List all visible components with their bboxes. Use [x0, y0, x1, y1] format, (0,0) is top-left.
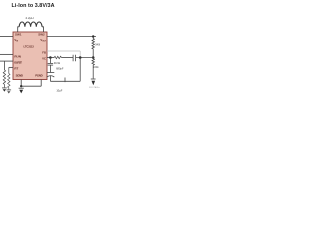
resistor R1 (top feedback): [92, 39, 94, 58]
node comp: [79, 56, 82, 59]
wire PGND drop: [40, 80, 42, 87]
svg-text:VC: VC: [42, 57, 46, 61]
ground (left col A): [2, 88, 7, 92]
wire SW2 stub up: [42, 27, 44, 32]
node VC: [49, 56, 52, 59]
wire stub (right of C4): [64, 78, 66, 83]
svg-text:49.9k: 49.9k: [54, 61, 61, 65]
wire RC to CC: [62, 57, 74, 59]
node junction SGND/PGND: [20, 85, 22, 87]
svg-text:FB: FB: [42, 50, 46, 54]
wire C3 lower lead: [49, 65, 51, 72]
wire RT branch down: [8, 67, 10, 73]
wire comp node down: [79, 58, 81, 82]
svg-text:LTC3113: LTC3113: [24, 45, 35, 49]
node FB divider mid: [92, 56, 95, 59]
wire VC cap branch down: [49, 58, 51, 64]
wire BURST: [0, 60, 13, 62]
svg-text:PGND: PGND: [35, 74, 42, 78]
svg-text:SW1: SW1: [15, 33, 22, 37]
svg-text:RT: RT: [14, 67, 18, 71]
wire SGND drop: [20, 80, 22, 87]
IC U1 LTC3113 body: [13, 32, 47, 80]
resistor R2 (bottom feedback): [92, 58, 94, 79]
wire RUN: [0, 53, 13, 55]
svg-text:680pF: 680pF: [56, 66, 64, 70]
svg-text:340k: 340k: [95, 42, 100, 46]
node VOUT/R1 tap: [92, 35, 94, 37]
wire SW1 stub up: [18, 27, 20, 32]
ground (under IC): [19, 88, 24, 93]
wire RT: [9, 66, 13, 68]
ground (left col B): [7, 90, 12, 94]
ground (feedback divider): [91, 79, 96, 85]
wire VC: [47, 57, 54, 59]
inductor L1 coil: [19, 22, 42, 27]
svg-text:BURST: BURST: [14, 61, 22, 65]
wire FB (faint): [47, 50, 80, 52]
svg-text:100k: 100k: [93, 65, 99, 69]
svg-text:SW2: SW2: [38, 33, 45, 37]
svg-text:3113 TA01a: 3113 TA01a: [89, 86, 100, 89]
wire ground bus under IC: [21, 85, 41, 87]
capacitor CC 680pF (series): [73, 55, 76, 61]
wire FB drop to comp node (faint): [79, 51, 81, 58]
wire CC to comp node: [76, 57, 94, 59]
wire VIN: [0, 36, 13, 38]
capacitor C4 10uF (polarized, lower): [47, 73, 54, 78]
svg-text:Li-Ion to 3.8V/3A: Li-Ion to 3.8V/3A: [12, 3, 55, 9]
wire VOUT: [47, 37, 96, 39]
wire BURST branch down: [3, 61, 5, 70]
capacitor C3 (VC branch upper plates): [48, 63, 53, 65]
svg-text:10µF: 10µF: [56, 89, 62, 93]
wire comp ground bar: [50, 80, 80, 82]
svg-text:RUN: RUN: [14, 54, 21, 58]
svg-text:2.2µH: 2.2µH: [25, 16, 33, 20]
resistor R3 (BURST pin pull-down): [3, 70, 5, 87]
svg-text:SGND: SGND: [16, 74, 23, 78]
resistor RC 49.9k: [54, 56, 61, 58]
resistor RT (timing): [8, 74, 10, 90]
wire C4 to ground bar: [49, 76, 51, 81]
